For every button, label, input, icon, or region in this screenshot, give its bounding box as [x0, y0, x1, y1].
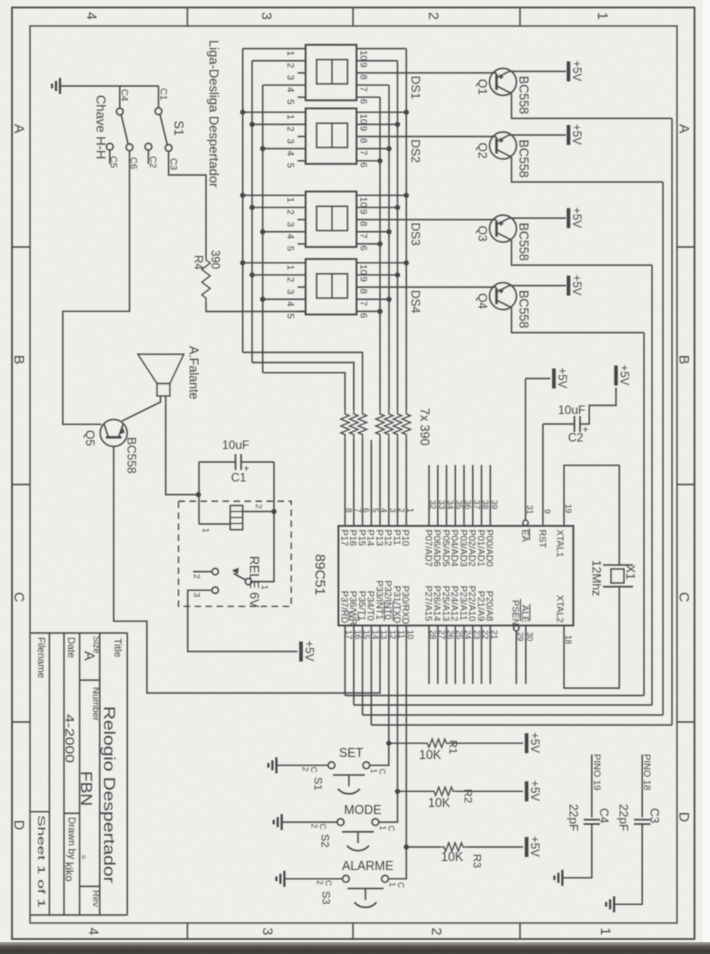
resistor R1 10K: [389, 742, 424, 744]
svg-text:6: 6: [358, 99, 369, 104]
chip pin RST: [542, 424, 544, 526]
Q5 base lead down: [114, 447, 380, 694]
svg-text:1: 1: [378, 826, 387, 831]
resistor R3 10K: [406, 846, 440, 848]
svg-text:14: 14: [371, 630, 381, 640]
svg-text:EA: EA: [520, 530, 530, 543]
svg-text:P03/AD3: P03/AD3: [458, 530, 468, 567]
relay coil pin 2 wire: [243, 511, 274, 513]
RST wire to C2: [543, 423, 575, 425]
pushbutton S3 ALARME: [343, 875, 350, 882]
Q3 base wire from display pin 8: [357, 219, 497, 221]
right bus verticals to resistors: [405, 49, 407, 410]
capacitor C4 22pF PINO 19: [591, 755, 593, 818]
svg-text:Liga-Desliga Despertador: Liga-Desliga Despertador: [207, 40, 222, 188]
svg-text:10: 10: [358, 114, 369, 125]
wire R4 to DS4 pin5: [206, 302, 306, 312]
svg-text:4: 4: [285, 234, 296, 239]
left bus verticals: [242, 49, 244, 353]
ground for S2 MODE: [281, 814, 283, 830]
relay common wire from coil node: [252, 512, 274, 582]
svg-text:30: 30: [525, 632, 535, 642]
svg-text:4: 4: [285, 301, 296, 306]
relay NO contact: [212, 568, 218, 574]
svg-text:9: 9: [358, 62, 369, 67]
svg-text:Number: Number: [90, 687, 101, 721]
svg-text:BC558: BC558: [517, 140, 531, 178]
switch contact C6: [126, 144, 133, 151]
display DS4 left pins: [243, 262, 306, 264]
svg-text:ALARME: ALARME: [342, 859, 393, 873]
svg-text:+5V: +5V: [618, 365, 630, 386]
svg-text:37: 37: [472, 500, 482, 510]
svg-text:A: A: [12, 124, 28, 134]
svg-text:P26/A14: P26/A14: [432, 586, 442, 622]
svg-text:2: 2: [429, 928, 445, 936]
Q2 base wire from display pin 8: [357, 136, 497, 138]
speaker A.Falante horn: [138, 354, 184, 383]
svg-text:15: 15: [362, 630, 372, 640]
svg-text:29: 29: [516, 632, 526, 642]
svg-text:B: B: [677, 355, 693, 364]
svg-text:3: 3: [285, 75, 296, 80]
Q3 collector route to right-side vertical: [512, 240, 653, 265]
svg-text:P32/INT0: P32/INT0: [383, 580, 393, 619]
svg-text:10uF: 10uF: [222, 438, 249, 452]
svg-text:10: 10: [358, 50, 369, 61]
svg-text:D: D: [677, 812, 693, 822]
SET button net from P32: [370, 626, 389, 766]
svg-text:31: 31: [525, 505, 535, 515]
display DS3 box: [306, 192, 357, 248]
capacitor C2 10uF: [573, 416, 575, 432]
svg-text:Q5: Q5: [83, 430, 97, 446]
svg-text:C: C: [12, 592, 28, 602]
svg-text:+5V: +5V: [570, 60, 582, 81]
svg-text:6: 6: [362, 508, 372, 513]
svg-text:P24/A12: P24/A12: [450, 586, 460, 622]
svg-text:21: 21: [490, 630, 500, 640]
switch S1 lever C4-C6: [121, 115, 128, 145]
svg-text:P00/AD0: P00/AD0: [485, 530, 495, 567]
svg-text:39: 39: [490, 500, 500, 510]
svg-text:2: 2: [285, 63, 296, 68]
svg-text:+5V: +5V: [570, 275, 582, 296]
svg-text:8: 8: [358, 221, 369, 226]
svg-text:XTAL2: XTAL2: [555, 595, 565, 623]
svg-text:5: 5: [285, 163, 296, 168]
svg-text:C2: C2: [568, 431, 584, 445]
switch S1 pole C1: [158, 86, 160, 108]
display DS4 right pins: [357, 262, 407, 264]
pushbutton S1 SET: [328, 762, 335, 769]
svg-text:B: B: [12, 355, 28, 364]
svg-text:ALE: ALE: [520, 605, 530, 623]
Q2 collector route to right-side vertical: [512, 157, 664, 182]
svg-text:P12: P12: [383, 530, 393, 547]
display DS1 right pins: [357, 48, 407, 50]
wire ground to switch commons: [60, 85, 159, 87]
relay dashed box RELE 6V: [179, 501, 292, 606]
svg-text:C2: C2: [147, 156, 158, 168]
left bus turns to resistors: [243, 352, 363, 410]
svg-text:8: 8: [358, 74, 369, 79]
svg-text:9: 9: [358, 209, 369, 214]
svg-text:P31/TXD: P31/TXD: [392, 586, 402, 624]
+5V at relay: [299, 642, 303, 662]
svg-text:7: 7: [358, 233, 369, 238]
wire speaker pin1 to Q5: [122, 396, 161, 421]
svg-text:Title: Title: [112, 638, 124, 658]
svg-text:5: 5: [371, 508, 381, 513]
Q2 emitter wire to +5V: [509, 134, 566, 136]
svg-text:26: 26: [446, 630, 456, 640]
crystal X1 12Mhz: [603, 564, 633, 566]
svg-text:2: 2: [285, 209, 296, 214]
svg-text:22pF: 22pF: [567, 804, 581, 831]
switch S1 lever C1-C3: [160, 114, 167, 144]
chip bottom labels P27-P20: [428, 626, 430, 685]
svg-text:S1: S1: [172, 121, 186, 136]
display DS2 left pins: [243, 111, 306, 113]
title block grid: [30, 632, 127, 634]
relay coil pin 1 wire: [199, 523, 230, 525]
svg-text:Q4: Q4: [476, 293, 490, 309]
relay coil: [230, 506, 243, 530]
C1 loop wires: [199, 461, 236, 463]
display DS1 left pins: [243, 48, 306, 50]
resistor R2 10K: [398, 790, 431, 792]
Q4 emitter wire to +5V: [509, 285, 566, 287]
svg-text:Date: Date: [65, 637, 76, 659]
svg-text:10: 10: [358, 197, 369, 208]
Q4 collector route to right-side vertical: [512, 308, 645, 333]
svg-text:10K: 10K: [419, 748, 442, 762]
svg-text:3: 3: [259, 12, 275, 20]
svg-text:DS3: DS3: [409, 223, 423, 247]
svg-text:+: +: [244, 464, 250, 475]
svg-text:7: 7: [353, 508, 363, 513]
svg-text:DS1: DS1: [409, 76, 423, 100]
svg-text:P35/T1: P35/T1: [357, 591, 367, 621]
border zone ticks top: [186, 8, 188, 27]
Q1 collector route to right-side vertical: [512, 93, 673, 118]
svg-text:7x 390: 7x 390: [418, 408, 432, 446]
+5V bar for Q2: [567, 125, 571, 145]
display DS3 left pins: [243, 194, 306, 196]
svg-text:+: +: [583, 425, 589, 436]
svg-text:P36/WR: P36/WR: [348, 591, 358, 626]
wire speaker pin2 to C1 node: [166, 396, 198, 495]
svg-text:1: 1: [598, 928, 614, 936]
svg-text:P16: P16: [348, 530, 358, 547]
svg-text:4: 4: [285, 151, 296, 156]
svg-text:+5V: +5V: [528, 780, 540, 801]
svg-text:10K: 10K: [441, 850, 464, 864]
svg-text:P04/AD4: P04/AD4: [450, 530, 460, 567]
svg-text:1: 1: [285, 265, 296, 270]
border zone ticks right: [677, 246, 695, 248]
svg-text:17: 17: [344, 630, 354, 640]
+5V bar for Q1: [567, 61, 571, 81]
svg-text:3: 3: [192, 593, 202, 598]
svg-text:35: 35: [455, 500, 465, 510]
transistor Q5 BC558: [100, 420, 127, 447]
svg-text:P33/INT1: P33/INT1: [374, 580, 384, 619]
+5V for EA: [526, 378, 551, 380]
svg-text:PINO 19: PINO 19: [591, 754, 602, 790]
svg-text:1: 1: [260, 585, 270, 590]
svg-text:A.Falante: A.Falante: [187, 346, 201, 400]
svg-text:Q1: Q1: [476, 79, 490, 95]
relay NC wire to +5V: [188, 590, 298, 651]
svg-text:22: 22: [481, 630, 491, 640]
svg-text:D: D: [12, 820, 28, 830]
svg-text:7: 7: [358, 87, 369, 92]
switch S1 pole C4: [119, 86, 121, 108]
svg-text:10K: 10K: [428, 796, 451, 810]
svg-text:8: 8: [358, 289, 369, 294]
svg-text:MODE: MODE: [344, 803, 382, 817]
switch contact C5: [106, 143, 113, 150]
svg-text:13: 13: [379, 630, 389, 640]
svg-text:S1: S1: [312, 777, 324, 790]
display DS2 right pins: [357, 111, 407, 113]
svg-text:10uF: 10uF: [558, 403, 585, 417]
relay armature lever: [234, 574, 247, 581]
svg-text:5: 5: [285, 99, 296, 104]
Q1 base wire from display pin 8: [357, 72, 497, 74]
svg-text:PINO 18: PINO 18: [641, 754, 652, 790]
svg-text:28: 28: [428, 630, 438, 640]
svg-text:+5V: +5V: [570, 207, 582, 228]
svg-text:P34/T0: P34/T0: [366, 591, 376, 621]
switch contact C2: [145, 143, 152, 150]
Q3 emitter wire to +5V: [509, 217, 566, 219]
ground for S3 ALARME: [283, 871, 285, 887]
relay NC contact: [212, 587, 218, 593]
resistor R4 390: [202, 256, 210, 302]
svg-text:3: 3: [285, 139, 296, 144]
svg-text:P06/AD6: P06/AD6: [432, 530, 442, 567]
svg-text:36: 36: [463, 500, 473, 510]
MODE button net from P31: [379, 626, 398, 823]
svg-text:C4: C4: [597, 808, 611, 824]
wire C6 down-left to Q5 base: [63, 151, 130, 425]
svg-text:P07/AD7: P07/AD7: [423, 530, 433, 567]
svg-text:24: 24: [463, 630, 473, 640]
svg-text:S3: S3: [320, 891, 332, 904]
svg-text:R1: R1: [447, 740, 459, 754]
svg-text:6: 6: [358, 313, 369, 318]
svg-text:C: C: [386, 826, 395, 832]
svg-text:XTAL1: XTAL1: [555, 530, 565, 558]
svg-text:1: 1: [595, 12, 611, 20]
svg-text:P21/A9: P21/A9: [476, 591, 486, 622]
svg-text:kiko: kiko: [63, 862, 75, 882]
resistor array 7x390: [341, 410, 349, 439]
svg-text:4: 4: [285, 87, 296, 92]
capacitor C1 10uF: [235, 454, 237, 470]
svg-text:34: 34: [446, 500, 456, 510]
svg-text:Q3: Q3: [476, 226, 490, 242]
svg-text:R3: R3: [471, 854, 483, 868]
svg-text:P22/A10: P22/A10: [467, 586, 477, 622]
svg-text:C: C: [318, 824, 327, 830]
ground for C4: [561, 870, 563, 886]
svg-text:P02/AD2: P02/AD2: [467, 530, 477, 567]
transistor Q3 BC558: [490, 215, 517, 242]
Q4 base wire from display pin 8: [357, 286, 497, 288]
svg-text:3: 3: [260, 928, 276, 936]
svg-text:BC558: BC558: [517, 290, 531, 328]
display DS1 box: [306, 45, 357, 101]
svg-text:P13: P13: [374, 530, 384, 547]
svg-text:P14: P14: [366, 530, 376, 547]
svg-text:C: C: [323, 880, 332, 886]
transistor Q1 BC558: [490, 68, 517, 95]
chip pin ALE: [525, 626, 527, 685]
svg-text:P01/AD1: P01/AD1: [476, 530, 486, 567]
ALARME button net from P30: [388, 626, 406, 879]
svg-text:C: C: [309, 767, 318, 773]
svg-text:C: C: [396, 882, 405, 888]
svg-text:A: A: [677, 124, 693, 134]
ground for C3: [613, 896, 615, 912]
C2 to +5V wire: [580, 388, 616, 425]
svg-text:S2: S2: [319, 834, 331, 847]
svg-text:P17: P17: [339, 530, 349, 547]
svg-text:9: 9: [358, 276, 369, 281]
svg-text:Rev: Rev: [90, 890, 101, 907]
svg-text:FBN: FBN: [77, 771, 94, 806]
svg-text:23: 23: [472, 630, 482, 640]
svg-text:5: 5: [285, 246, 296, 251]
svg-text:6: 6: [358, 245, 369, 250]
transistor Q4 BC558: [490, 283, 517, 310]
display DS3 right pins: [357, 194, 407, 196]
svg-text:C3: C3: [648, 808, 662, 824]
svg-text:PSEN: PSEN: [511, 600, 521, 625]
junction speaker/Q5 node on C1 left leg: [196, 492, 201, 497]
border zone ticks bottom: [186, 923, 188, 939]
svg-text:1: 1: [406, 508, 416, 513]
svg-text:P27/A15: P27/A15: [423, 586, 433, 622]
svg-text:2: 2: [315, 880, 324, 885]
chip pins P00-P07 stubs up: [428, 465, 430, 526]
svg-text:3: 3: [285, 289, 296, 294]
svg-text:390: 390: [209, 250, 221, 269]
svg-text:P10: P10: [401, 530, 411, 547]
svg-text:Q2: Q2: [476, 143, 490, 159]
svg-text:2: 2: [254, 504, 264, 509]
svg-text:12Mhz: 12Mhz: [590, 560, 604, 596]
+5V bar for Q3: [567, 208, 571, 228]
svg-text:Filename: Filename: [35, 637, 46, 679]
svg-text:4: 4: [379, 508, 389, 513]
svg-text:Sheet 1 of 1: Sheet 1 of 1: [35, 815, 46, 909]
svg-text:6: 6: [358, 162, 369, 167]
long horizontals to chip P34-P37: [345, 695, 644, 697]
svg-text:Relogio Despertador: Relogio Despertador: [100, 706, 117, 884]
svg-text:2: 2: [310, 824, 319, 829]
P14 stub wire: [370, 440, 372, 526]
+5V near C2: [614, 366, 618, 386]
svg-text:BC558: BC558: [517, 76, 531, 114]
svg-text:C1: C1: [158, 88, 169, 100]
svg-text:P37/RD: P37/RD: [339, 591, 349, 624]
+5V pull-up for R2: [525, 781, 529, 801]
svg-text:1: 1: [285, 114, 296, 119]
svg-text:27: 27: [437, 630, 447, 640]
svg-text:RST: RST: [537, 530, 547, 549]
svg-text:Chave H-H: Chave H-H: [94, 95, 109, 159]
svg-text:+5V: +5V: [528, 732, 540, 753]
+5V bar for Q4: [567, 276, 571, 296]
svg-text:7: 7: [358, 150, 369, 155]
svg-text:16: 16: [353, 630, 363, 640]
svg-text:2: 2: [426, 12, 442, 20]
svg-text:8: 8: [358, 138, 369, 143]
svg-text:89C51: 89C51: [313, 554, 329, 595]
border zone ticks left: [12, 246, 30, 248]
svg-text:Drawn by: Drawn by: [66, 817, 77, 859]
ground top-left: [59, 78, 61, 94]
XTAL1 wire loop: [564, 465, 619, 565]
svg-text:32: 32: [428, 500, 438, 510]
svg-text:1: 1: [369, 769, 378, 774]
svg-text:10: 10: [358, 264, 369, 275]
svg-text:+5V: +5V: [570, 124, 582, 145]
svg-text:BC558: BC558: [125, 437, 139, 474]
svg-text:P30/RXD: P30/RXD: [401, 586, 411, 625]
svg-text:A: A: [81, 651, 97, 661]
+5V pull-up for R1: [525, 733, 529, 753]
svg-text:9: 9: [542, 509, 552, 514]
XTAL2 wire loop: [564, 587, 619, 688]
svg-text:5: 5: [285, 313, 296, 318]
scan smudge artifact: [81, 855, 86, 860]
svg-text:DS2: DS2: [409, 139, 423, 163]
svg-text:18: 18: [564, 635, 574, 645]
svg-text:C4: C4: [119, 89, 130, 101]
svg-text:P25/A13: P25/A13: [441, 586, 451, 622]
transistor Q2 BC558: [490, 132, 517, 159]
svg-text:1: 1: [285, 197, 296, 202]
svg-text:2: 2: [301, 767, 310, 772]
svg-text:R4: R4: [192, 255, 204, 270]
chip pin PSEN: [514, 626, 519, 631]
svg-text:2: 2: [285, 126, 296, 131]
svg-text:P23/A11: P23/A11: [458, 586, 468, 621]
svg-text:1: 1: [201, 528, 211, 533]
svg-text:33: 33: [437, 500, 447, 510]
IC U1 89C51 body: [338, 526, 573, 626]
svg-text:4: 4: [84, 12, 100, 20]
svg-text:C: C: [377, 769, 386, 775]
svg-text:C: C: [677, 592, 693, 602]
svg-text:2: 2: [397, 508, 407, 513]
switch contact C3: [165, 145, 172, 152]
svg-text:R2: R2: [462, 789, 474, 803]
svg-text:P15: P15: [357, 530, 367, 547]
wire C3 to R4: [169, 151, 206, 256]
svg-text:SET: SET: [339, 746, 364, 760]
svg-text:2: 2: [285, 277, 296, 282]
svg-text:BC558: BC558: [517, 223, 531, 261]
svg-text:1: 1: [285, 51, 296, 56]
svg-text:+5V: +5V: [555, 368, 567, 389]
